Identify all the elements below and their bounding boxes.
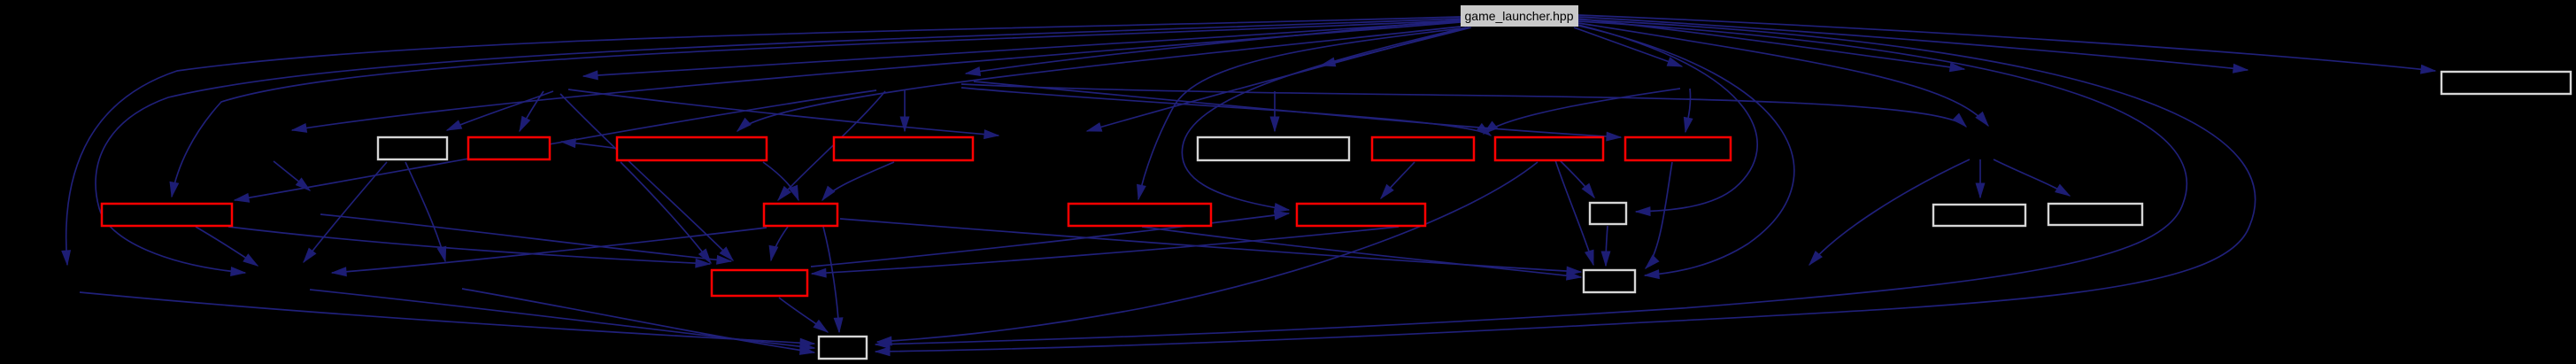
edge I1->R1 top [520,91,544,131]
edge I8->W4 top [1979,159,1981,197]
edge R5->W7 right [877,162,1538,342]
edge W1->IB top2 [304,162,387,262]
svg-text:game_launcher.hpp: game_launcher.hpp [1465,9,1574,23]
edge I1->W1 [447,91,553,130]
edge I2->I8 [961,84,1966,127]
node R5 [1495,137,1603,160]
node R6 [1625,137,1731,160]
node W1 [378,137,447,159]
edge R2->R11 top-left [621,162,711,263]
node W3 [1590,203,1626,224]
edge root->I4 invisible row2 [1578,19,1964,69]
edge I2->R8 top-left [778,91,885,200]
edge root->R9 curve [1138,27,1469,199]
edge I2->R7 top-right [235,90,876,200]
edge I2->R3 top [904,89,906,131]
edge R8->R11 top [771,227,788,260]
edge R11->W7 top-left [779,298,828,332]
edge root->I7 invisible row3 [1087,27,1466,131]
edge root->I8 invisible row3 [1578,23,1988,126]
edge I2->R6 left [974,81,1621,137]
edge root->W7 (right loop b) [875,19,2256,352]
edge I3->R4 top-right [1484,89,1680,134]
edge N4->R11 top-left2 [320,214,731,261]
edge I1->I6 invisible row3 [568,89,999,136]
edge R2->R1 right [561,142,620,149]
node W4 [1933,205,2025,226]
edge I0->W2 top [1274,91,1276,131]
edge R4->R10 top [1381,162,1415,198]
edge root->I0 invisible row2 [1321,27,1471,66]
edge root->W7 (right loop a) [875,21,2187,345]
edge root->R2 top [737,27,1461,131]
node R9 [1068,204,1211,226]
edge R8->IB right [332,228,767,273]
edge R7->R11 top-left [228,227,710,264]
edge R6->W6 right [1646,162,1672,268]
edge IB->W7 left [310,290,814,348]
edge I8->W5 top-left [1994,159,2070,196]
edge IA->W7 left [80,292,814,344]
edge root->IB invisible bottom-left box (left edge) [96,19,1461,273]
node R1 [468,137,550,159]
edge root->W6 (right edge) [1578,26,1794,275]
node W5 [2048,204,2142,225]
node R4 [1372,137,1474,160]
edge root->IL invisible row3 [292,22,1461,130]
node root game_launcher.hpp [1461,5,1578,27]
edge R5->W6 top [1555,160,1593,265]
edge I1->R11 top-left [560,94,733,260]
edge I2->R5 left-top [961,88,1491,136]
node W2 [1198,137,1349,160]
edge R8->W6 left [840,219,1581,272]
edge root->I2 invisible row2 [966,19,1461,74]
edge root->R10 S-curve [1182,27,1466,210]
edge R2->R8 top [763,162,798,200]
edge R3->R8 top-right [822,162,894,200]
edge R7->IB top [196,227,258,266]
edge root->W8 [1578,15,2435,71]
node W8 [2441,72,2571,94]
edge I3->R6 top [1685,89,1691,132]
node R8 [764,204,837,226]
edge root->I5 invisible row2 [1578,17,2248,70]
edge R9->W6 left [1142,227,1581,277]
edge root->I3 invisible row2 [1574,27,1682,66]
edge root->R7 top [172,20,1461,197]
edge IB2->W7 left [462,289,814,352]
edge root->I1 invisible row2 [583,21,1461,76]
edge IL->N4 invisible [274,161,310,190]
node R11 [712,270,807,296]
edge R11->R10 left [811,213,1289,267]
edge R10->R11 right [812,227,1399,274]
node R10 [1297,204,1425,226]
edge I8->IB3 invisible [1809,159,1970,265]
edge R8->W7 top [823,227,839,332]
edge W1->IB2 top [405,162,445,261]
edge root->IA invisible bottom-left [66,17,1461,265]
edge W3->W6 top [1606,226,1608,266]
node R2 [617,137,767,160]
node W6 [1584,270,1635,292]
node W7 [819,337,867,359]
node R3 [834,137,973,160]
node R7 [102,204,232,226]
edge root->W3 (right edge) [1578,25,1757,212]
edge R5->W3 top-left [1560,160,1594,197]
